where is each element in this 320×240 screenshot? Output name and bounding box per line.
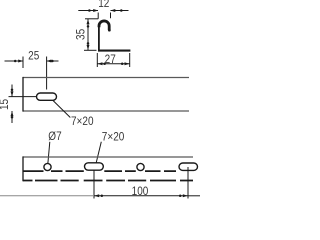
dimension 35 line (87, 19, 89, 51)
bottom rail hidden edge lower (dashed) (23, 180, 193, 182)
leader line 7x20 bottom view (96, 142, 101, 163)
dimension 15 upper leader (11, 85, 13, 97)
svg-text:25: 25 (28, 50, 39, 63)
dimension 25 left dot (14, 60, 17, 63)
dimension 27 left arrow (98, 62, 103, 65)
dimension 25 right arrow (46, 60, 51, 63)
dimension 15 lower leader (11, 111, 13, 123)
slot 7x20 middle view (37, 93, 57, 100)
dimension 27 right extension line (129, 53, 131, 67)
dimension 12 left extension line (97, 13, 99, 19)
dimension 100 right dot (179, 195, 182, 198)
dimension 12 right arrow (110, 9, 115, 12)
dimension 25 left extension line (22, 57, 24, 69)
profile bottom flange (98, 49, 130, 51)
svg-text:27: 27 (105, 54, 116, 67)
dimension 15 upper dot (11, 89, 14, 92)
profile left wall (98, 27, 100, 50)
dimension 15 lower arrow (11, 111, 14, 116)
dimension 27 left dot (103, 63, 106, 66)
dimension 27 right arrow (125, 62, 130, 65)
profile hook tip (108, 29, 111, 32)
dimension 100 grey left line (0, 195, 94, 197)
bottom rail top edge (23, 156, 193, 158)
dimension 27 right dot (121, 63, 124, 66)
svg-text:35: 35 (75, 29, 88, 40)
dimension 100 left extension line (93, 170, 95, 198)
dimension 15 lower dot (11, 116, 14, 119)
dimension 15 upper arrow (11, 91, 14, 96)
svg-text:100: 100 (132, 185, 149, 198)
dimension 12 left arrow (93, 9, 98, 12)
svg-text:15: 15 (0, 99, 11, 110)
dimension 35 top extension line (85, 18, 98, 20)
dimension 25 left leader line (5, 60, 24, 62)
bottom rail hidden edge upper (dashed) (24, 170, 177, 172)
dimension 35 top dot (87, 25, 90, 28)
hole diameter 7 right (137, 163, 144, 170)
dimension 100 right continuation (188, 195, 200, 197)
leader line slot middle view (53, 101, 70, 118)
leader line diameter 7 (48, 142, 50, 163)
hole diameter 7 left (44, 163, 51, 170)
svg-text:Ø7: Ø7 (48, 131, 61, 144)
dimension 12 right leader line (111, 10, 129, 12)
dimension 12 right dot (120, 9, 123, 12)
bottom rail left edge (22, 156, 24, 181)
middle rail bottom edge (23, 110, 189, 112)
dimension 100 right extension line (187, 167, 189, 199)
dimension 25 left arrow (18, 60, 23, 63)
dimension 35 bottom dot (87, 42, 90, 45)
dimension 100 right arrow (183, 194, 188, 197)
middle rail left edge (22, 77, 24, 112)
dimension 35 top arrow (87, 19, 90, 24)
dimension 35 bottom extension line (84, 49, 97, 51)
svg-text:12: 12 (98, 0, 109, 10)
dimension 25 right dot (51, 60, 54, 63)
middle rail top edge (23, 77, 189, 79)
svg-text:7×20: 7×20 (102, 131, 125, 144)
dimension 100 left dot (101, 195, 104, 198)
dimension 25 right leader line (47, 60, 59, 62)
dimension 35 bottom arrow (87, 45, 90, 50)
profile hook arc (99, 21, 109, 30)
dimension 100 left arrow (94, 194, 99, 197)
dimension 12 right extension line (110, 13, 112, 19)
dimension 25 right extension line / slot centerline (46, 57, 48, 90)
dimension 12 left leader line (78, 10, 98, 12)
dimension 12 left dot (88, 9, 91, 12)
slot 7x20 bottom view right (179, 163, 198, 170)
svg-text:7×20: 7×20 (71, 115, 94, 128)
dimension 27 line (97, 63, 129, 65)
dimension 15 top extension line (9, 96, 37, 98)
dimension 27 left extension line (96, 53, 98, 67)
slot 7x20 bottom view left (85, 163, 104, 170)
dimension 100 line (94, 195, 188, 197)
